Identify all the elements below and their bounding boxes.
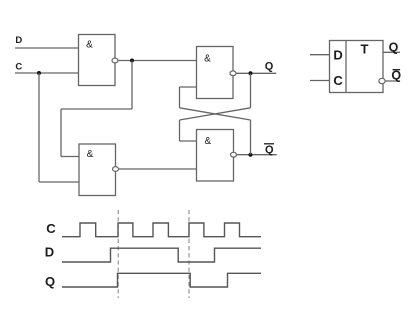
svg-text:D: D [15, 35, 22, 46]
svg-text:&: & [204, 54, 211, 65]
svg-text:&: & [204, 136, 211, 147]
wire U2 output to U4 input [119, 168, 197, 170]
flip-flop block U5 [330, 41, 384, 93]
label D input [15, 35, 22, 46]
waveform D [62, 248, 261, 262]
dashed cursor line 1 [117, 210, 119, 298]
node Qbar junction [249, 153, 253, 157]
svg-text:Q: Q [389, 41, 399, 55]
svg-text:D: D [45, 245, 54, 260]
svg-text:&: & [86, 40, 93, 51]
wire Qbar feedback up [250, 120, 252, 155]
inverter bubble U3 output [230, 71, 236, 76]
wire U1 output to U3 input [118, 60, 197, 62]
nand gate U3 [197, 47, 234, 99]
inverter bubble U2 output [113, 167, 119, 172]
wire into U2 input [61, 156, 79, 158]
label C waveform [46, 221, 56, 236]
wire U4 output to Qbar [237, 154, 277, 156]
wire Qbar feedback up left [179, 87, 181, 108]
label Qbar output [264, 144, 274, 156]
wire Qbar feedback into U3 [180, 86, 197, 88]
label Q waveform [45, 274, 55, 289]
wire down to U2 level [60, 109, 62, 157]
svg-text:Q: Q [391, 69, 401, 83]
inverter bubble U1 output [112, 58, 118, 63]
wire C junction down [38, 73, 40, 182]
label D waveform [45, 245, 54, 260]
wire C to gate U1 [15, 72, 79, 74]
node U1 output junction [130, 59, 134, 63]
waveform C [62, 223, 261, 237]
nand gate U2 [79, 144, 116, 196]
nand gate U1 [79, 35, 116, 86]
wire Q feedback into U4 [180, 140, 197, 142]
wire Qbar feedback diagonal [180, 108, 251, 120]
node C junction [37, 71, 41, 75]
svg-text:Q: Q [265, 144, 274, 156]
wire Q output of U5 [383, 51, 400, 53]
svg-text:C: C [46, 221, 56, 236]
label Q output of U5 [389, 41, 399, 55]
wire Q feedback down left [179, 120, 181, 141]
waveform Q [62, 273, 261, 287]
svg-text:D: D [333, 47, 342, 62]
nand gate U4 [197, 130, 234, 182]
svg-text:&: & [87, 149, 94, 160]
node Q junction [249, 71, 253, 75]
wire across left [61, 108, 132, 110]
wire U1 output down [131, 61, 133, 110]
svg-text:C: C [15, 61, 22, 72]
label C pin of U5 [333, 73, 343, 88]
label T of U5 [361, 41, 369, 56]
svg-text:Q: Q [45, 274, 55, 289]
label C input [15, 61, 22, 72]
wire C to gate U2 [39, 181, 79, 183]
wire Q feedback down [250, 73, 252, 108]
label D pin of U5 [333, 47, 342, 62]
inverter bubble U4 output [231, 152, 237, 157]
wire D to gate U1 [15, 47, 79, 49]
svg-text:T: T [361, 41, 369, 56]
inverter bubble Qbar of U5 [379, 78, 385, 83]
label Q output [265, 61, 274, 73]
dashed cursor line 2 [188, 210, 190, 298]
svg-text:Q: Q [265, 61, 274, 73]
wire Qbar output of U5 [385, 80, 400, 82]
svg-text:C: C [333, 73, 343, 88]
wire C input of U5 [310, 80, 330, 82]
wire D input of U5 [310, 54, 330, 56]
wire U3 output to Q [236, 72, 276, 74]
label Qbar output of U5 [391, 69, 401, 83]
wire Q feedback diagonal [180, 108, 251, 120]
